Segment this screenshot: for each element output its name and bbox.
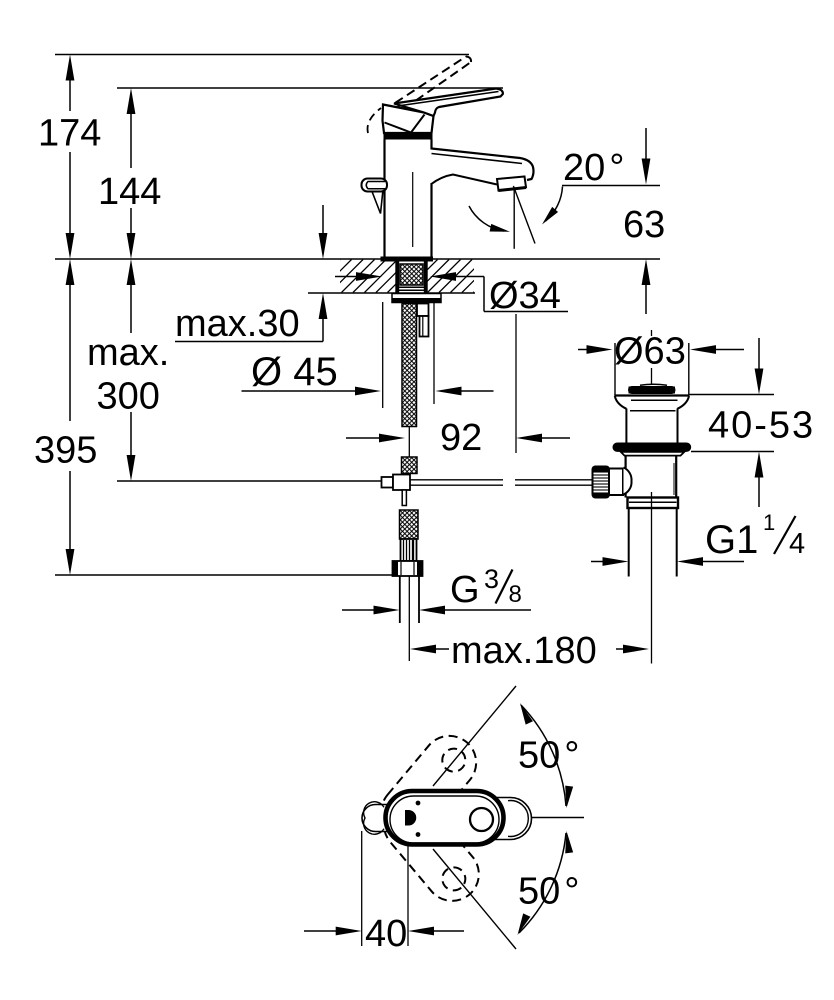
svg-text:50°: 50°: [518, 871, 579, 913]
svg-text:3: 3: [484, 564, 499, 594]
svg-text:300: 300: [97, 376, 160, 418]
svg-text:max.: max.: [87, 332, 169, 374]
svg-text:max.30: max.30: [175, 303, 300, 345]
svg-text:40: 40: [365, 913, 407, 955]
svg-text:G1: G1: [705, 518, 758, 562]
svg-text:50°: 50°: [518, 735, 579, 777]
svg-text:40-53: 40-53: [708, 405, 815, 447]
svg-text:174: 174: [38, 113, 101, 155]
svg-text:Ø63: Ø63: [614, 331, 686, 373]
svg-text:395: 395: [34, 430, 97, 472]
svg-text:G: G: [450, 569, 480, 611]
svg-text:8: 8: [509, 581, 522, 608]
svg-text:92: 92: [440, 417, 482, 459]
svg-text:144: 144: [98, 171, 161, 213]
svg-text:max.180: max.180: [451, 630, 597, 672]
svg-text:1: 1: [763, 510, 775, 535]
svg-text:20°: 20°: [563, 147, 624, 189]
svg-text:Ø 45: Ø 45: [251, 350, 338, 394]
svg-text:Ø34: Ø34: [489, 275, 561, 317]
svg-text:4: 4: [789, 528, 805, 560]
svg-text:63: 63: [623, 204, 665, 246]
